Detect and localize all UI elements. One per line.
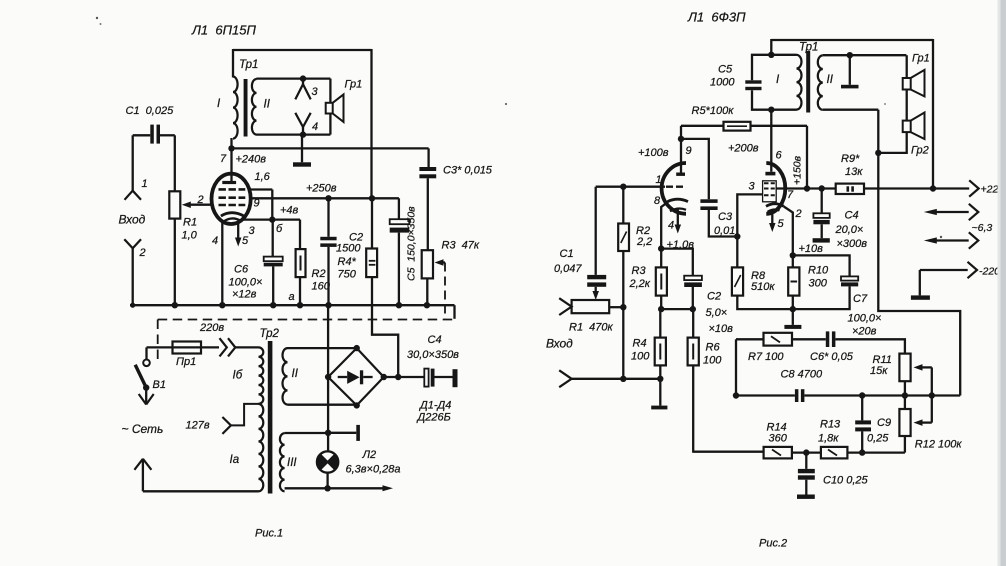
- capacitor C6 star plates: [826, 331, 836, 347]
- label C4: [428, 334, 442, 346]
- wire C3 to R8 node: [709, 210, 738, 237]
- wire bridge minus to amp ground: [327, 305, 329, 377]
- svg-text:2: 2: [197, 194, 204, 206]
- schematic title tube Л1 6П15П: [191, 23, 256, 38]
- wire triode grid: [596, 186, 665, 188]
- svg-text:100: 100: [631, 351, 650, 363]
- label pin 5: [242, 235, 249, 247]
- label Gr1 fig2: [912, 53, 930, 65]
- svg-text:R13: R13: [820, 419, 841, 431]
- wire speaker branch upper: [329, 79, 331, 103]
- wire node b to R2: [272, 220, 300, 250]
- svg-text:б: б: [276, 223, 283, 235]
- capacitor C2 plates: [320, 237, 336, 247]
- wire R4 leads: [659, 309, 661, 379]
- node primary bottom: [768, 107, 774, 113]
- wire cathode pin 3: [243, 218, 272, 220]
- transformer Tr1 fig2 secondary II: [818, 55, 823, 109]
- ground of -220: [911, 270, 930, 300]
- svg-text:7: 7: [220, 153, 227, 165]
- svg-text:Iб: Iб: [233, 370, 243, 382]
- capacitor C2 electrolytic fig2: [684, 276, 702, 287]
- svg-text:750: 750: [338, 269, 357, 281]
- wire between speakers: [906, 90, 908, 121]
- svg-text:II: II: [264, 99, 271, 111]
- triode heater arrow: [675, 210, 682, 234]
- svg-text:Вход: Вход: [546, 337, 573, 351]
- svg-text:Л1 6Ф3П: Л1 6Ф3П: [687, 10, 746, 25]
- resistor R8: [732, 267, 743, 295]
- svg-text:510к: 510к: [751, 281, 775, 293]
- tube anode plate: [222, 181, 236, 184]
- dashed wiper link R3: [444, 263, 446, 319]
- C8 bus left: [736, 394, 795, 396]
- svg-text:2: 2: [139, 247, 146, 259]
- capacitor C3 fig2 plates: [700, 199, 717, 210]
- pentode cathode: [766, 204, 784, 212]
- wire C1 left: [133, 135, 151, 190]
- wire secondary bottom fig2: [823, 110, 879, 153]
- wire anode +240V feed to C3: [232, 147, 429, 149]
- bridge diode D1-D4: [338, 370, 373, 384]
- capacitor C6 lead upper: [272, 220, 274, 257]
- label C1 0,047: [554, 248, 582, 275]
- label R6 100: [703, 342, 722, 367]
- speaker Gr1 fig2: [903, 55, 925, 96]
- svg-text:R1 470к: R1 470к: [569, 322, 614, 334]
- capacitor C9: [855, 396, 871, 453]
- schematic title tube Л1 6Ф3П: [687, 10, 746, 25]
- wire primary top stub: [771, 54, 796, 56]
- wire R7 left: [736, 338, 764, 340]
- svg-text:6,3в×0,28а: 6,3в×0,28а: [346, 464, 401, 476]
- triode grid dashes: [666, 185, 684, 187]
- label pin 5 fig2: [778, 218, 785, 230]
- label Л2 6,3в x 0,28а: [346, 449, 401, 476]
- pentode grid dashes: [764, 183, 775, 195]
- node C9 top: [859, 392, 865, 398]
- wire R5 left anode node: [681, 125, 724, 127]
- mains plug upper prong: [139, 388, 154, 405]
- label +1,0в: [667, 239, 695, 251]
- capacitor C8 plates: [795, 389, 805, 402]
- label C5 1000: [710, 64, 735, 89]
- svg-text:2,2: 2,2: [636, 236, 652, 248]
- wire anode corner: [680, 126, 682, 139]
- label C10 0,25: [823, 475, 869, 487]
- transformer Tr1 secondary II winding: [252, 79, 257, 135]
- label 30,0x350в: [407, 349, 459, 361]
- ground fig2 input: [651, 379, 667, 410]
- node primary top: [768, 52, 774, 58]
- svg-text:1: 1: [142, 178, 148, 190]
- label Тр1 fig2: [799, 42, 818, 54]
- node terminal 4 junction: [300, 131, 306, 137]
- wire terminal 2 to ground bus: [130, 248, 135, 308]
- svg-text:R5*100к: R5*100к: [692, 105, 735, 117]
- label +10в: [799, 243, 824, 255]
- label pin 1: [656, 174, 662, 186]
- R3 wiper arrow: [435, 259, 446, 266]
- node heater winding junction: [325, 430, 331, 436]
- mains plug lower prong: [134, 459, 151, 492]
- label R10 300: [808, 265, 829, 290]
- svg-text:~6,3: ~6,3: [972, 222, 993, 234]
- R12 wiper: [914, 419, 932, 426]
- transformer Tr1 primary I winding: [233, 77, 238, 139]
- svg-text:С6: С6: [234, 264, 249, 276]
- capacitor C4 lead fig2: [821, 189, 823, 214]
- svg-text:8: 8: [654, 195, 661, 207]
- svg-text:R2: R2: [312, 268, 326, 280]
- tube grid row pin 2: [219, 204, 246, 207]
- svg-text:4: 4: [212, 235, 218, 247]
- label +150в vertical: [792, 155, 804, 185]
- lower feedback bus 3: [847, 451, 905, 453]
- label Д1-Д4 Д226Б: [416, 400, 452, 424]
- dashed chassis boundary: [158, 320, 455, 360]
- node lamp bottom: [324, 485, 330, 491]
- tube cathode arcs: [221, 213, 244, 222]
- pentode anode lead: [770, 110, 772, 172]
- wire secondary bottom: [257, 133, 331, 135]
- svg-text:1500: 1500: [336, 243, 361, 255]
- capacitor C2 lead lower: [327, 247, 329, 305]
- svg-text:×300в: ×300в: [837, 238, 868, 250]
- svg-text:13к: 13к: [845, 166, 863, 178]
- label II secondary: [264, 99, 271, 111]
- terminal 3 connector: [295, 79, 318, 100]
- svg-text:С1: С1: [560, 248, 574, 260]
- node wiper crossing: [929, 392, 935, 398]
- svg-text:R3: R3: [632, 265, 647, 277]
- svg-text:Iа: Iа: [230, 454, 240, 466]
- label Пр1: [176, 356, 196, 368]
- potentiometer R12: [899, 409, 910, 436]
- label node a: [289, 291, 295, 303]
- svg-text:С5 150,0×350в: С5 150,0×350в: [406, 206, 418, 281]
- svg-text:9: 9: [686, 145, 692, 157]
- wire top left drop: [770, 39, 772, 55]
- wire heater bottom with arrow: [285, 485, 393, 491]
- label C2 1500: [336, 232, 363, 255]
- label pin 7: [220, 153, 227, 165]
- svg-text:R10: R10: [808, 265, 829, 277]
- svg-text:Гр1: Гр1: [912, 53, 930, 65]
- svg-text:360: 360: [769, 433, 788, 445]
- svg-text:С6* 0,05: С6* 0,05: [810, 351, 854, 363]
- label C5 150,0x350в vertical: [406, 206, 418, 281]
- svg-text:0,047: 0,047: [554, 263, 582, 275]
- wire cathode to C2: [661, 249, 693, 276]
- svg-text:3: 3: [312, 86, 319, 98]
- 127V tap zigzag: [231, 404, 259, 426]
- svg-text:+200в: +200в: [728, 143, 759, 155]
- svg-text:R1: R1: [183, 217, 197, 229]
- wire Gr2 to feedback node: [878, 132, 906, 153]
- wire R11 bottom: [904, 381, 906, 395]
- node feedback takeoff: [875, 150, 881, 156]
- potentiometer R11: [899, 354, 910, 382]
- wire R1 to R2 node: [609, 306, 623, 308]
- label R7 100: [748, 351, 784, 363]
- label R13 1,8к: [818, 419, 841, 445]
- svg-text:1000: 1000: [710, 77, 735, 89]
- label pin 2: [197, 194, 204, 206]
- svg-text:127в: 127в: [186, 420, 210, 432]
- svg-text:20,0×: 20,0×: [835, 224, 864, 236]
- wire primary bottom to anode: [230, 138, 232, 148]
- label C6* 0,05: [810, 351, 854, 363]
- resistor R2 fig2: [618, 224, 629, 252]
- svg-text:R9*: R9*: [841, 153, 860, 165]
- terminal 1 input: [125, 178, 148, 200]
- label 1,6: [255, 171, 271, 183]
- node C4 junction: [395, 374, 401, 380]
- wire C7 lower: [793, 286, 850, 309]
- resistor R9: [836, 184, 864, 194]
- wire term2 bus: [572, 378, 661, 380]
- svg-text:30,0×350в: 30,0×350в: [407, 349, 459, 361]
- wire R1 to ground bus: [174, 219, 176, 306]
- label pin 8: [654, 195, 661, 207]
- svg-text:I: I: [217, 98, 221, 110]
- transformer Tr1 label: [239, 59, 258, 71]
- pentode anode plate: [765, 172, 775, 176]
- speaker Gr2: [903, 113, 925, 140]
- node triode anode: [678, 136, 684, 142]
- node R1 ground: [172, 302, 178, 308]
- wire secondary II bottom to bridge: [288, 404, 357, 406]
- wire C5 to ground bus: [398, 233, 400, 306]
- label 127в: [186, 420, 210, 432]
- label В1: [153, 379, 166, 391]
- svg-text:2,2к: 2,2к: [629, 278, 651, 290]
- svg-text:5,0×: 5,0×: [706, 307, 728, 319]
- transformer Tr1 fig2 core: [806, 51, 810, 113]
- label R12 100к: [915, 439, 963, 451]
- svg-text:С2: С2: [707, 291, 721, 303]
- wire bridge left to lamp: [327, 377, 329, 452]
- triode cathode: [668, 199, 689, 211]
- transformer Tr2 heater winding III: [280, 433, 285, 491]
- triode cathode lead: [661, 202, 668, 249]
- svg-text:-220: -220: [979, 266, 1000, 278]
- triode envelope: [662, 163, 686, 214]
- node screen junction: [804, 185, 810, 191]
- svg-text:Д226Б: Д226Б: [416, 412, 451, 424]
- svg-text:Вход: Вход: [119, 213, 146, 227]
- label pin 3 fig2: [749, 181, 756, 193]
- pentode envelope: [766, 163, 785, 214]
- label R1 470к: [569, 322, 614, 334]
- resistor R13: [821, 447, 848, 459]
- node C6 ground: [270, 302, 276, 308]
- resistor R5: [724, 122, 751, 131]
- wire C2 lower: [692, 287, 694, 309]
- wire winding III to lamp node: [285, 432, 329, 434]
- wire riser lower to rectifier: [372, 277, 398, 377]
- svg-text:2: 2: [795, 208, 802, 220]
- terminal input 2 fig2: [559, 370, 571, 387]
- label R9* 13к: [841, 153, 863, 178]
- terminal +220: [969, 180, 1004, 196]
- terminal input 1 fig2: [559, 298, 571, 315]
- svg-text:С5: С5: [718, 64, 733, 76]
- terminal -220: [920, 262, 1000, 278]
- label C3* 0,015: [443, 165, 493, 177]
- label R2 2,2: [636, 225, 652, 248]
- svg-text:R4*: R4*: [338, 256, 357, 268]
- label Вход: [119, 213, 146, 227]
- svg-text:1,6: 1,6: [255, 171, 271, 183]
- transformer Tr2 primary Ib: [259, 347, 264, 403]
- wire R8 leads: [737, 237, 793, 310]
- terminal 2 input: [124, 239, 145, 259]
- svg-text:Рис.2: Рис.2: [759, 538, 787, 550]
- label I primary: [217, 98, 221, 110]
- resistor R2: [296, 249, 306, 277]
- svg-text:С10 0,25: С10 0,25: [823, 475, 869, 487]
- svg-text:R12 100к: R12 100к: [915, 439, 963, 451]
- lamp Л2: [317, 451, 338, 472]
- pentode cathode lead: [784, 207, 793, 256]
- node A left: [658, 306, 664, 312]
- node riser junction on +250 bus: [369, 195, 375, 201]
- label Тр2: [260, 328, 280, 340]
- svg-text:R3 47к: R3 47к: [442, 240, 480, 252]
- wire R7 to C6: [792, 338, 826, 340]
- tube Л1 envelope: [212, 174, 251, 224]
- capacitor C4 electrolytic: [424, 369, 434, 387]
- svg-text:100,0×: 100,0×: [229, 277, 263, 289]
- resistor R6: [688, 338, 699, 366]
- label pin 3: [249, 225, 256, 237]
- label C8 4700: [781, 369, 823, 381]
- label pin 9: [254, 198, 260, 210]
- label Gr2: [911, 145, 929, 157]
- wire C3 to R3: [427, 178, 429, 250]
- label +250в: [306, 183, 337, 195]
- svg-text:II: II: [827, 74, 834, 86]
- capacitor C7 electrolytic: [841, 276, 858, 286]
- wire pin 1,6 to cathode node: [249, 190, 272, 220]
- wire frame left drop to primary: [232, 49, 234, 78]
- capacitor C4 electrolytic fig2: [813, 213, 829, 224]
- label R11 15к: [870, 354, 892, 377]
- label +240в: [236, 154, 267, 166]
- wire C5 stub: [372, 198, 399, 219]
- svg-text:1,0: 1,0: [182, 230, 198, 242]
- potentiometer R1 fig2: [572, 300, 610, 313]
- label pin 6: [776, 150, 783, 162]
- svg-text:5: 5: [242, 235, 249, 247]
- ground bus of amplifier: [130, 305, 455, 319]
- svg-text:4: 4: [668, 220, 674, 232]
- caption Рис.2: [759, 538, 787, 550]
- svg-text:+150в: +150в: [792, 155, 804, 185]
- fuse Пр1: [173, 342, 220, 354]
- label R8 510к: [751, 270, 775, 293]
- node R1 junction: [620, 304, 626, 310]
- wire speaker branch lower: [329, 114, 331, 135]
- svg-text:×10в: ×10в: [709, 323, 734, 335]
- svg-text:С4: С4: [845, 210, 859, 222]
- svg-text:Д1-Д4: Д1-Д4: [418, 400, 451, 412]
- switch В1 contact: [143, 347, 150, 366]
- tube pin 5 heater arrow: [235, 224, 242, 247]
- capacitor C4 ground fig2: [813, 224, 830, 242]
- svg-text:Пр1: Пр1: [176, 356, 196, 368]
- label C3 0,01: [714, 211, 735, 237]
- label pin 9 fig2: [686, 145, 692, 157]
- wire mains bottom: [143, 490, 259, 492]
- node pin4 ground: [219, 302, 225, 308]
- node bridge bottom: [354, 402, 360, 408]
- wire feedback drop: [878, 153, 960, 396]
- svg-text:Тр1: Тр1: [239, 59, 258, 71]
- node C10 junction: [803, 449, 809, 455]
- triode anode plate: [676, 173, 685, 176]
- transformer Tr1 fig2 primary I: [797, 55, 802, 110]
- wire +220 bus right: [864, 187, 969, 189]
- C4 terminal bar: [435, 369, 458, 387]
- node R4 ground junction: [657, 376, 663, 382]
- wire secondary top: [257, 77, 331, 79]
- svg-text:3: 3: [249, 225, 256, 237]
- wire bridge plus to C4: [384, 376, 425, 378]
- resistor R14: [764, 447, 792, 459]
- svg-text:3: 3: [749, 181, 756, 193]
- potentiometer R1: [169, 191, 180, 218]
- svg-text:Л2: Л2: [362, 449, 377, 461]
- svg-text:R4: R4: [633, 338, 647, 350]
- terminal 4 connector: [295, 113, 318, 135]
- svg-text:С3* 0,015: С3* 0,015: [443, 165, 493, 177]
- svg-text:В1: В1: [153, 379, 166, 391]
- label R14 360: [767, 422, 788, 445]
- label I fig2: [776, 74, 780, 86]
- triode anode lead: [680, 139, 682, 173]
- svg-text:I: I: [776, 74, 780, 86]
- resistor R7: [764, 333, 793, 346]
- capacitor C3 plates: [419, 167, 436, 178]
- label R1 1,0: [182, 217, 198, 242]
- node OPT riser junction: [930, 185, 936, 191]
- label C1 0,025: [126, 105, 175, 117]
- heater supply arrow 2: [924, 232, 979, 248]
- capacitor C5 electrolytic: [390, 219, 410, 232]
- svg-text:III: III: [287, 457, 297, 469]
- ground pentode: [784, 309, 801, 329]
- svg-text:9: 9: [254, 198, 260, 210]
- wire screen riser: [806, 126, 808, 189]
- label +4в: [280, 205, 299, 217]
- label R2 160: [312, 268, 331, 293]
- tube pin 4 lead: [221, 222, 223, 306]
- resistor R4: [366, 249, 377, 278]
- resistor R10: [788, 267, 799, 295]
- node bridge left: [325, 374, 331, 380]
- label III winding: [287, 457, 297, 469]
- svg-text:100: 100: [703, 355, 722, 367]
- svg-text:×12в: ×12в: [232, 289, 257, 301]
- wire node A: [661, 308, 693, 310]
- capacitor C5 plates: [745, 80, 761, 90]
- svg-text:R6: R6: [706, 342, 721, 354]
- wire primary bottom stub: [771, 109, 796, 111]
- node 7 anode junction: [228, 145, 234, 151]
